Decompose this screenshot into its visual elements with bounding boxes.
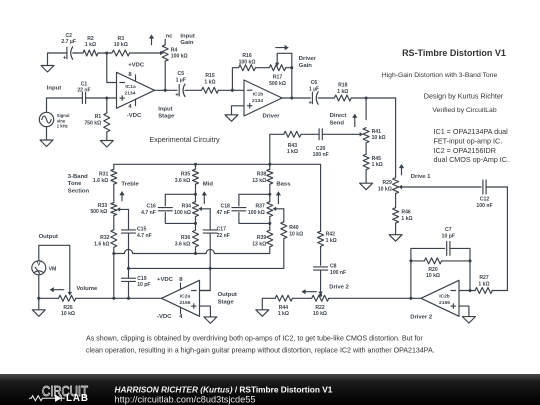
resistor R1 xyxy=(84,98,109,141)
node xyxy=(319,294,322,297)
wire (VM to output row) xyxy=(38,275,40,299)
svg-text:3-Band: 3-Band xyxy=(68,174,88,180)
svg-text:R16: R16 xyxy=(242,53,252,59)
svg-text:C6: C6 xyxy=(311,80,318,86)
svg-text:C20: C20 xyxy=(316,146,326,152)
wire (wiper output rail) xyxy=(129,267,284,269)
svg-text:3.6 kΩ: 3.6 kΩ xyxy=(175,178,190,184)
svg-text:1 µF: 1 µF xyxy=(309,87,319,93)
wire (tone drive drop) xyxy=(320,230,322,232)
wire (feedback to IC1a inverting input) xyxy=(107,53,117,83)
annotation arrow (Mid) xyxy=(202,191,207,203)
wire xyxy=(365,170,367,184)
svg-text:1.6 kΩ: 1.6 kΩ xyxy=(94,241,109,247)
svg-text:R40: R40 xyxy=(289,225,299,231)
svg-text:Stage: Stage xyxy=(218,299,235,305)
capacitor C2 xyxy=(61,33,76,62)
ground (IC2a +) xyxy=(204,317,217,324)
node xyxy=(468,259,471,262)
label Drive 2 xyxy=(329,285,349,291)
wire (IC2a - feedback) xyxy=(200,290,211,292)
node xyxy=(194,163,197,166)
svg-text:Driver 2: Driver 2 xyxy=(410,314,433,320)
label Driver Gain xyxy=(299,56,317,69)
wire xyxy=(283,239,285,269)
resistor R42 xyxy=(318,231,337,246)
svg-text:R4: R4 xyxy=(171,47,178,53)
wire (R41 wiper run) xyxy=(322,133,352,135)
svg-text:C8: C8 xyxy=(330,263,337,269)
svg-text:C2: C2 xyxy=(65,33,72,39)
svg-text:V: V xyxy=(37,262,41,268)
svg-text:47 nF: 47 nF xyxy=(217,210,230,216)
svg-text:Send: Send xyxy=(330,120,345,126)
svg-text:R15: R15 xyxy=(205,73,215,79)
svg-text:1 µF: 1 µF xyxy=(176,78,186,84)
svg-text:IC2b: IC2b xyxy=(439,293,450,299)
svg-text:R29: R29 xyxy=(382,180,392,186)
svg-text:1 kΩ: 1 kΩ xyxy=(401,216,412,222)
svg-text:C1: C1 xyxy=(81,81,88,87)
svg-text:13 kΩ: 13 kΩ xyxy=(252,178,266,184)
svg-text:100 kΩ: 100 kΩ xyxy=(248,210,265,216)
svg-text:Volume: Volume xyxy=(76,286,98,292)
annotation arrow (Driver Gain) xyxy=(276,45,289,50)
label +VDC pin 8 (IC2a) xyxy=(157,277,183,283)
svg-text:Bass: Bass xyxy=(276,182,291,188)
wire (IC1b output) xyxy=(281,97,311,99)
ground (R44) xyxy=(256,298,269,316)
wire xyxy=(255,67,269,69)
svg-text:R43: R43 xyxy=(288,143,298,149)
svg-text:As shown, clipping is obtained: As shown, clipping is obtained by overdr… xyxy=(86,334,423,342)
voltmeter VM xyxy=(32,261,57,275)
annotation arrow (Volume) xyxy=(50,287,64,292)
svg-text:nc: nc xyxy=(166,33,174,39)
svg-text:dual CMOS op-Amp IC.: dual CMOS op-Amp IC. xyxy=(434,155,510,164)
node (IC1b feedback tap) xyxy=(231,89,234,92)
wire xyxy=(301,133,319,135)
svg-text:2.7 µF: 2.7 µF xyxy=(61,39,76,45)
svg-text:+: + xyxy=(308,100,312,106)
svg-text:Drive 1: Drive 1 xyxy=(411,174,431,180)
node xyxy=(409,297,412,300)
svg-text:R27: R27 xyxy=(479,275,489,281)
svg-text:RS-Timbre Distortion V1: RS-Timbre Distortion V1 xyxy=(402,48,506,58)
annotation arrow (Drive 2) xyxy=(301,289,316,294)
svg-text:100 nF: 100 nF xyxy=(313,152,329,158)
svg-text:Direct: Direct xyxy=(330,113,347,119)
wire (pot-bottom rail with hops) xyxy=(114,249,270,253)
svg-text:22 nF: 22 nF xyxy=(217,233,230,239)
label Direct Send xyxy=(330,113,347,126)
svg-text:Verified by CircuitLab: Verified by CircuitLab xyxy=(432,107,496,114)
svg-text:IC1 = OPA2134PA dual: IC1 = OPA2134PA dual xyxy=(434,127,509,136)
wire xyxy=(395,223,397,235)
wire (to IC2a inverting) xyxy=(200,233,211,290)
capacitor C16 xyxy=(141,204,172,216)
svg-text:Mid: Mid xyxy=(203,182,214,188)
wire xyxy=(292,297,311,299)
label +VDC pin 8 (IC1a) xyxy=(128,63,145,79)
annotation arrow (Direct Send) xyxy=(352,114,357,127)
resistor R18 xyxy=(334,83,351,101)
label Drive 1 xyxy=(411,174,431,180)
svg-text:Stage: Stage xyxy=(158,113,175,119)
op-amp IC2b xyxy=(421,280,459,316)
resistor R16 xyxy=(239,53,256,71)
svg-text:1 kΩ: 1 kΩ xyxy=(326,238,337,244)
wire xyxy=(128,281,130,298)
annotation arrow (Treble) xyxy=(119,191,124,201)
bottom annotation xyxy=(86,334,435,354)
wire (to tone input) xyxy=(270,134,284,164)
ground (R46) xyxy=(389,235,402,242)
svg-text:1 kΩ: 1 kΩ xyxy=(287,149,298,155)
label Output xyxy=(39,234,58,240)
wire (treble branch to output row) xyxy=(113,247,115,298)
wire xyxy=(365,98,367,120)
svg-text:Drive 2: Drive 2 xyxy=(329,285,349,291)
wiper wire (R37) xyxy=(273,207,284,211)
svg-text:1 kΩ: 1 kΩ xyxy=(372,162,383,168)
wiper wire (R34) xyxy=(198,207,210,211)
svg-text:1 kΩ: 1 kΩ xyxy=(478,282,489,288)
svg-text:R31: R31 xyxy=(99,172,109,178)
wire (to IC1b inverting input) xyxy=(218,89,244,91)
svg-text:Output: Output xyxy=(39,234,58,240)
label Driver xyxy=(263,113,281,119)
label Input xyxy=(47,86,61,92)
wire (driver node) xyxy=(351,97,395,99)
svg-text:+: + xyxy=(63,55,67,61)
svg-text:HARRISON RICHTER (Kurtus) / RS: HARRISON RICHTER (Kurtus) / RSTimbre Dis… xyxy=(115,385,333,395)
wire (input row) xyxy=(47,97,83,99)
node xyxy=(112,297,115,300)
wire xyxy=(365,143,367,154)
svg-text:1 kΩ: 1 kΩ xyxy=(337,89,348,95)
svg-text:R41: R41 xyxy=(372,129,382,135)
potentiometer R37 xyxy=(248,194,273,223)
svg-text:Driver: Driver xyxy=(263,113,281,119)
svg-text:2134: 2134 xyxy=(125,91,136,97)
svg-text:-VDC: -VDC xyxy=(157,314,172,320)
svg-text:C12: C12 xyxy=(480,197,490,203)
wire (drive2 output row) xyxy=(329,297,422,299)
svg-text:+VDC: +VDC xyxy=(157,277,174,283)
resistor R3 xyxy=(112,36,130,56)
svg-text:R22: R22 xyxy=(315,305,325,311)
svg-text:2156: 2156 xyxy=(180,300,191,306)
node xyxy=(127,297,130,300)
svg-text:Section: Section xyxy=(68,188,90,194)
svg-text:R42: R42 xyxy=(326,231,336,237)
svg-text:Gain: Gain xyxy=(299,63,312,69)
wire (treble wiper drop) xyxy=(128,209,130,230)
svg-text:C19: C19 xyxy=(137,276,147,282)
node xyxy=(409,259,412,262)
title xyxy=(402,48,506,58)
wire (output row) xyxy=(39,297,162,299)
svg-text:R44: R44 xyxy=(279,305,289,311)
svg-text:R32: R32 xyxy=(100,235,110,241)
wire xyxy=(185,89,202,91)
svg-text:R37: R37 xyxy=(255,204,265,210)
wire (C16 branch) xyxy=(165,194,195,206)
resistor R39 xyxy=(252,223,273,247)
node (R17 junction) xyxy=(290,66,293,69)
svg-text:R26: R26 xyxy=(63,305,73,311)
node xyxy=(268,193,271,196)
wire xyxy=(113,216,115,230)
resistor R35 xyxy=(175,164,199,184)
wire (drive1 run) xyxy=(405,186,481,188)
wire xyxy=(195,247,197,254)
label Output Stage xyxy=(218,292,237,305)
svg-text:R33: R33 xyxy=(98,203,108,209)
capacitor C17 xyxy=(203,227,230,239)
wire xyxy=(239,213,270,224)
svg-text:100 kΩ: 100 kΩ xyxy=(174,210,191,216)
capacitor C5 xyxy=(175,71,186,99)
capacitor C6 xyxy=(308,80,319,106)
svg-text:R39: R39 xyxy=(257,235,267,241)
footer credit text xyxy=(115,385,333,405)
svg-text:10 kΩ: 10 kΩ xyxy=(114,42,128,48)
op-amp IC2a xyxy=(162,280,200,316)
svg-text:http://circuitlab.com/c8ud3tsj: http://circuitlab.com/c8ud3tsjcde55 xyxy=(115,394,256,404)
wiper wire (R33) xyxy=(117,207,129,211)
svg-text:-VDC: -VDC xyxy=(127,113,142,119)
svg-text:Tone: Tone xyxy=(68,181,82,187)
node xyxy=(37,297,40,300)
wire (driver node riser) xyxy=(395,98,397,178)
svg-text:Input: Input xyxy=(158,107,172,113)
wire xyxy=(269,247,271,254)
svg-text:IC2a: IC2a xyxy=(180,293,191,299)
svg-text:C15: C15 xyxy=(137,227,147,233)
svg-text:Design by Kurtus Richter: Design by Kurtus Richter xyxy=(424,92,504,101)
wire xyxy=(128,233,130,278)
svg-text:3.6 kΩ: 3.6 kΩ xyxy=(175,241,190,247)
svg-text:2156: 2156 xyxy=(439,300,450,306)
svg-text:+VDC: +VDC xyxy=(128,63,145,69)
svg-text:500 kΩ: 500 kΩ xyxy=(90,209,107,215)
wire (feedback riser) xyxy=(232,68,238,91)
label Bass xyxy=(276,182,291,188)
svg-text:1 kΩ: 1 kΩ xyxy=(85,42,96,48)
capacitor C18 xyxy=(217,204,246,216)
ground (output) xyxy=(32,298,45,316)
wire xyxy=(486,186,507,188)
CircuitLab logo xyxy=(29,383,89,404)
svg-text:4.7 nF: 4.7 nF xyxy=(141,210,156,216)
svg-text:13 kΩ: 13 kΩ xyxy=(252,241,266,247)
svg-text:LAB: LAB xyxy=(66,393,89,404)
resistor R46 xyxy=(393,208,413,223)
svg-text:Treble: Treble xyxy=(121,182,139,188)
label Driver 2 xyxy=(410,314,433,320)
resistor R31 xyxy=(93,164,117,184)
op-amp IC1b xyxy=(244,80,282,116)
svg-text:C18: C18 xyxy=(221,204,231,210)
svg-text:10 pF: 10 pF xyxy=(137,282,150,288)
svg-text:R20: R20 xyxy=(428,267,438,273)
svg-text:10 kΩ: 10 kΩ xyxy=(313,311,327,317)
node (R4 to output) xyxy=(164,89,167,92)
ground (input AC-couple return) xyxy=(41,53,67,72)
node xyxy=(112,252,115,255)
node xyxy=(468,289,471,292)
IC note xyxy=(434,127,510,164)
wire (to R22 wiper) xyxy=(318,270,322,295)
wire xyxy=(395,194,397,208)
resistor R45 xyxy=(363,154,383,169)
credit line 2 xyxy=(432,107,496,114)
svg-text:R45: R45 xyxy=(372,156,382,162)
svg-text:clean operation, resulting in: clean operation, resulting in a high-gai… xyxy=(86,346,435,354)
subtitle xyxy=(382,72,498,79)
label -VDC pin 4 (IC1a) xyxy=(127,104,142,119)
wire (VM to volume wiper) xyxy=(39,245,70,291)
potentiometer R22 xyxy=(312,295,329,317)
svg-text:R2: R2 xyxy=(87,36,94,42)
svg-text:R18: R18 xyxy=(338,83,348,89)
svg-text:C5: C5 xyxy=(178,71,185,77)
resistor R36 xyxy=(175,223,199,247)
node xyxy=(209,267,212,270)
wire xyxy=(86,97,117,99)
label Mid xyxy=(203,182,214,188)
wire xyxy=(318,97,334,99)
node xyxy=(268,222,271,225)
capacitor C12 xyxy=(476,180,492,209)
svg-text:10 kΩ: 10 kΩ xyxy=(61,311,75,317)
svg-text:1 kΩ: 1 kΩ xyxy=(204,80,215,86)
svg-text:10 kΩ: 10 kΩ xyxy=(372,135,386,141)
wire (mid wiper drop) xyxy=(209,209,211,230)
wire (IC1a output) xyxy=(155,89,178,91)
ground (IC2b +) xyxy=(462,317,475,324)
svg-text:1.6 kΩ: 1.6 kΩ xyxy=(93,178,108,184)
ground (R45) xyxy=(360,183,373,190)
svg-text:10 kΩ: 10 kΩ xyxy=(426,273,440,279)
svg-text:100 nF: 100 nF xyxy=(476,203,492,209)
svg-text:R35: R35 xyxy=(181,172,191,178)
svg-text:C17: C17 xyxy=(217,227,227,233)
wire (C18 branch) xyxy=(239,194,270,206)
potentiometer R41 xyxy=(353,128,386,143)
svg-text:+: + xyxy=(175,93,179,99)
wire xyxy=(73,52,75,54)
label nc xyxy=(166,33,174,39)
wire (IC2b + to ground) xyxy=(459,306,469,317)
svg-text:C16: C16 xyxy=(147,204,157,210)
svg-text:22 nF: 22 nF xyxy=(77,88,90,94)
footer bar xyxy=(0,374,540,405)
label 3-Band Tone Section xyxy=(68,174,90,194)
svg-text:10 kΩ: 10 kΩ xyxy=(378,187,392,193)
node xyxy=(194,193,197,196)
annotation arrow (Input Gain) xyxy=(149,34,154,44)
wire (R27 to C12 drop) xyxy=(492,187,507,291)
svg-text:Experimental Circuitry: Experimental Circuitry xyxy=(149,135,220,144)
ground (R1) xyxy=(100,141,113,148)
capacitor C8 xyxy=(314,263,347,275)
capacitor C19 xyxy=(122,276,151,288)
wire (bass wiper riser) xyxy=(283,209,285,222)
wire (IC2b - input) xyxy=(459,290,475,292)
resistor R32 xyxy=(94,230,117,248)
annotation arrow (Bass) xyxy=(276,191,281,203)
wire (IC2a + to ground) xyxy=(200,306,211,317)
capacitor C1 xyxy=(77,81,90,103)
potentiometer R33 xyxy=(90,203,116,216)
wire xyxy=(269,184,271,194)
resistor R43 xyxy=(284,131,301,155)
label Treble xyxy=(121,182,139,188)
node (after R18) xyxy=(365,96,368,99)
svg-text:1 kHz: 1 kHz xyxy=(57,124,68,129)
wire xyxy=(165,213,195,224)
svg-text:1 kΩ: 1 kΩ xyxy=(278,311,289,317)
wire xyxy=(195,184,197,194)
svg-text:R46: R46 xyxy=(401,210,411,216)
resistor R20 xyxy=(411,258,470,279)
wire xyxy=(262,297,275,299)
resistor R38 xyxy=(252,164,273,184)
potentiometer R26 xyxy=(59,292,76,318)
credit line 1 xyxy=(424,92,504,101)
node xyxy=(268,163,271,166)
svg-text:R17: R17 xyxy=(273,75,283,81)
capacitor C20 xyxy=(313,129,329,158)
wire xyxy=(320,246,322,265)
svg-text:500 kΩ: 500 kΩ xyxy=(269,81,286,87)
wire (R3 to R4 wiper) xyxy=(130,51,164,55)
svg-text:IC1a: IC1a xyxy=(125,84,136,90)
node (C1/R1 junction) xyxy=(105,96,108,99)
svg-text:R3: R3 xyxy=(118,36,125,42)
wire xyxy=(98,52,112,54)
svg-text:10 pF: 10 pF xyxy=(442,234,455,240)
label Input Gain xyxy=(180,33,194,46)
svg-text:100 kΩ: 100 kΩ xyxy=(171,54,188,60)
wire (R17 to output node) xyxy=(286,53,292,98)
node (R2/R3 junction) xyxy=(105,51,108,54)
resistor R27 xyxy=(475,275,492,293)
op-amp IC1a xyxy=(117,72,155,108)
potentiometer R17 xyxy=(269,53,292,87)
node xyxy=(127,267,130,270)
svg-text:IC2 = OPA2156IDR: IC2 = OPA2156IDR xyxy=(434,146,496,155)
svg-text:Output: Output xyxy=(218,292,237,298)
capacitor C7 xyxy=(442,227,455,255)
wire xyxy=(450,248,470,290)
ground (IC1b +) xyxy=(225,115,238,122)
resistor R40 xyxy=(281,222,303,239)
label Input Stage xyxy=(158,107,175,120)
svg-text:Input: Input xyxy=(47,86,61,92)
annotation arrow (Drive 1) xyxy=(399,164,404,175)
label Volume xyxy=(76,286,98,292)
svg-text:Driver: Driver xyxy=(299,56,317,62)
svg-text:High-Gain Distortion with 3-Ba: High-Gain Distortion with 3-Band Tone xyxy=(382,72,498,79)
label -VDC pin 4 (IC2a) xyxy=(157,314,183,320)
svg-text:Gain: Gain xyxy=(180,40,193,46)
voltage source V1 (signal sine) xyxy=(39,98,69,140)
svg-text:R34: R34 xyxy=(182,204,192,210)
